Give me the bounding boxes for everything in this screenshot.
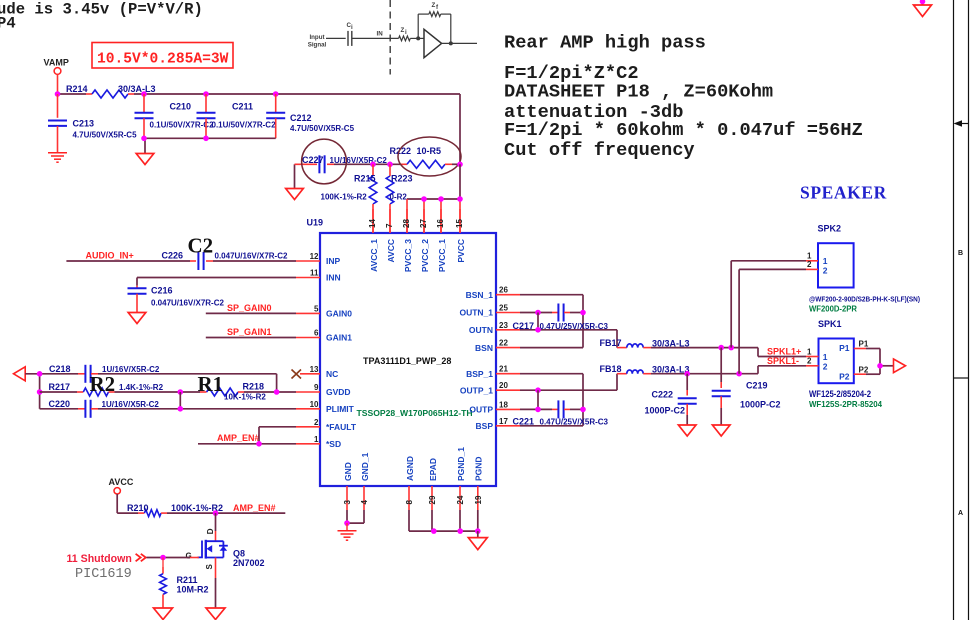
capacitor C226 0.047U/16V/X7R-C2 — [162, 251, 288, 271]
wire to SPK2 pin1 — [731, 261, 806, 348]
svg-text:TSSOP28_W170P065H12-TH: TSSOP28_W170P065H12-TH — [357, 408, 473, 418]
SPK1 pin P1 — [839, 340, 869, 354]
U19 part name — [363, 356, 451, 366]
svg-text:P1: P1 — [839, 343, 850, 353]
svg-text:NC: NC — [326, 369, 338, 379]
capacitor C222 1000P-C2 — [645, 374, 697, 425]
svg-text:P2: P2 — [859, 366, 869, 375]
svg-text:*SD: *SD — [326, 439, 341, 449]
capacitor C216 0.047U/16V/X7R-C2 — [128, 286, 225, 313]
junction dot GND — [344, 520, 350, 526]
svg-text:C2: C2 — [188, 234, 214, 258]
svg-text:PIC1619: PIC1619 — [75, 567, 132, 582]
capacitor C217 0.47U/25V/X5R-C3 — [513, 304, 609, 332]
svg-text:26: 26 — [499, 286, 508, 295]
svg-text:12: 12 — [310, 252, 319, 261]
U19 footprint name — [357, 408, 473, 418]
ground below C222 — [678, 425, 696, 436]
svg-text:21: 21 — [499, 365, 508, 374]
svg-text:Cut off frequency: Cut off frequency — [504, 139, 695, 161]
svg-text:BSP: BSP — [476, 421, 494, 431]
svg-text:2: 2 — [823, 265, 828, 275]
svg-text:0-R2: 0-R2 — [390, 193, 408, 202]
svg-text:0.1U/50V/X7R-C2: 0.1U/50V/X7R-C2 — [150, 120, 215, 129]
svg-text:*FAULT: *FAULT — [326, 422, 357, 432]
resistor R211 10M-R2 — [160, 558, 209, 608]
ground below C216 — [128, 313, 146, 324]
U19 pin 20 OUTP_1 — [460, 381, 520, 395]
wire P1 P2 join — [866, 349, 894, 375]
svg-text:WF125S-2PR-85204: WF125S-2PR-85204 — [809, 399, 882, 409]
svg-text:20: 20 — [499, 381, 508, 390]
U19 pin 29 EPAD — [428, 458, 438, 510]
U19 pin 23 OUTN — [469, 321, 520, 335]
svg-text:FB18: FB18 — [600, 364, 622, 374]
svg-text:0.1U/50V/X7R-C2: 0.1U/50V/X7R-C2 — [212, 120, 277, 129]
junction dots cap bottoms — [141, 136, 209, 142]
svg-text:C220: C220 — [49, 399, 71, 409]
svg-text:WF200D-2PR: WF200D-2PR — [809, 304, 857, 314]
wire BSP_1 loop — [520, 374, 583, 426]
svg-text:9: 9 — [314, 383, 319, 392]
resistor R210 100K-1%-R2 — [117, 503, 223, 517]
svg-text:11 Shutdown: 11 Shutdown — [67, 553, 132, 565]
inductor FB17 30/3A-L3 — [600, 338, 690, 349]
junction dots R217 row — [178, 389, 280, 395]
wire PGND bus — [409, 510, 478, 531]
SPK1 footprint — [809, 399, 882, 409]
U19 pin 17 BSP — [476, 417, 520, 431]
svg-text:R218: R218 — [243, 382, 265, 392]
svg-text:SP_GAIN1: SP_GAIN1 — [227, 327, 272, 337]
svg-text:15: 15 — [455, 219, 464, 228]
svg-text:C216: C216 — [151, 286, 173, 296]
svg-text:10M-R2: 10M-R2 — [177, 585, 209, 595]
svg-text:i: i — [351, 24, 353, 31]
transistor Q8 2N7002 — [186, 528, 265, 569]
svg-text:19: 19 — [474, 495, 483, 504]
svg-text:AVCC: AVCC — [109, 477, 134, 487]
wire PVCC distribution — [407, 164, 460, 233]
svg-text:23: 23 — [499, 321, 508, 330]
off-page connector right — [894, 359, 906, 373]
U19 pin 9 GVDD — [296, 383, 351, 397]
U19 pin 13 NC — [300, 365, 338, 379]
junction dots output nodes — [684, 345, 741, 377]
datasheet figure wire — [326, 37, 346, 39]
SPK1 part number — [809, 389, 871, 399]
svg-text:AMP_EN#: AMP_EN# — [217, 433, 260, 443]
junction dots C221 — [535, 407, 586, 413]
U19 pin 5 GAIN0 — [296, 304, 352, 318]
U19 pin 1 *SD — [296, 435, 341, 449]
svg-text:R214: R214 — [66, 84, 88, 94]
svg-text:FB17: FB17 — [600, 338, 622, 348]
svg-text:G: G — [186, 552, 192, 561]
SPK2 footprint — [809, 304, 857, 314]
U19 pin 28 PVCC_3 — [402, 209, 413, 272]
wire OUTP_1 to FB18 — [520, 374, 617, 391]
svg-text:0.047U/16V/X7R-C2: 0.047U/16V/X7R-C2 — [215, 252, 288, 261]
svg-text:SP_GAIN0: SP_GAIN0 — [227, 303, 272, 313]
resistor R218 10K-1%-R2 — [200, 382, 266, 402]
border zone B — [958, 250, 963, 257]
note: Rear AMP high pass — [504, 32, 706, 54]
svg-text:TPA3111D1_PWP_28: TPA3111D1_PWP_28 — [363, 356, 451, 366]
U19 pin 24 PGND_1 — [456, 447, 466, 510]
svg-text:1000P-C2: 1000P-C2 — [740, 400, 781, 410]
svg-text:AMP_EN#: AMP_EN# — [233, 503, 276, 513]
resistor R215 100K-1%-R2 — [321, 164, 377, 233]
wire to SPK2 pin2 — [739, 269, 806, 373]
svg-text:INP: INP — [326, 256, 341, 266]
svg-text:13: 13 — [310, 365, 319, 374]
ground top right — [914, 0, 932, 16]
inductor FB18 30/3A-L3 — [600, 364, 690, 375]
svg-text:C219: C219 — [746, 381, 768, 391]
wire C227 to R222 — [373, 163, 400, 165]
capacitor C220 1U/16V/X5R-C2 — [40, 399, 160, 418]
svg-text:C222: C222 — [652, 390, 674, 400]
wire GND pins join — [347, 510, 364, 523]
junction dots on VAMP rail — [55, 91, 279, 97]
svg-text:VAMP: VAMP — [44, 58, 69, 68]
note: attenuation — [504, 101, 683, 123]
ground below GND pins — [338, 523, 357, 540]
junction dots on C227 row — [370, 162, 463, 168]
U19 pin 12 INP — [296, 252, 341, 266]
U19 pin 10 PLIMIT — [296, 400, 355, 414]
svg-text:f: f — [436, 4, 439, 11]
resistor R214 30/3A-L3 — [66, 84, 156, 98]
svg-text:AGND: AGND — [405, 456, 415, 481]
svg-text:1: 1 — [314, 435, 319, 444]
svg-text:GAIN0: GAIN0 — [326, 309, 352, 319]
U19 pin 27 PVCC_2 — [419, 209, 430, 272]
svg-text:C226: C226 — [162, 251, 184, 261]
net AMP_EN# wire to *SD — [198, 433, 296, 444]
note box 10.5V*0.285A=3W — [92, 43, 233, 69]
label PIC1619 — [75, 567, 132, 582]
border zone A — [958, 510, 963, 517]
svg-text:AUDIO_IN+: AUDIO_IN+ — [86, 251, 134, 261]
svg-text:1.4K-1%-R2: 1.4K-1%-R2 — [119, 383, 164, 392]
datasheet figure op-amp triangle — [424, 29, 442, 57]
wire R217 to R218 — [115, 391, 201, 393]
svg-text:P2: P2 — [839, 371, 850, 381]
svg-text:OUTP: OUTP — [469, 405, 493, 415]
svg-text:PVCC_1: PVCC_1 — [437, 239, 447, 272]
svg-text:C218: C218 — [49, 364, 71, 374]
svg-text:22: 22 — [499, 339, 508, 348]
SPK1 pin 1 — [806, 347, 828, 362]
svg-text:IN: IN — [377, 31, 384, 38]
svg-text:PGND: PGND — [474, 456, 484, 481]
svg-text:Z: Z — [401, 27, 405, 34]
svg-text:28: 28 — [402, 219, 411, 228]
junction dots PVCC line — [421, 196, 463, 202]
SPK1 pin 2 — [806, 357, 828, 372]
svg-text:GND: GND — [343, 462, 353, 481]
junction dot OUTN — [535, 327, 541, 333]
svg-text:10: 10 — [310, 400, 319, 409]
svg-text:R215: R215 — [354, 174, 376, 184]
sheet border lines — [954, 0, 969, 620]
wire BSP stub — [520, 425, 583, 427]
wire left bus vertical — [39, 374, 41, 409]
svg-text:1: 1 — [807, 251, 812, 260]
wire FB17 to SPK1 pin1 — [651, 348, 806, 357]
datasheet figure output wire — [442, 41, 477, 45]
svg-text:PVCC_3: PVCC_3 — [403, 239, 413, 272]
junction dots C217 — [535, 310, 586, 316]
svg-text:4.7U/50V/X5R-C5: 4.7U/50V/X5R-C5 — [73, 131, 138, 140]
capacitor C210 0.1U/50V/X7R-C2 — [135, 94, 215, 138]
svg-text:2: 2 — [314, 418, 319, 427]
U19 pin 21 BSP_1 — [466, 365, 520, 379]
svg-text:0.047U/16V/X7R-C2: 0.047U/16V/X7R-C2 — [151, 299, 224, 308]
svg-text:EPAD: EPAD — [428, 458, 438, 481]
wire cap bottoms join — [144, 138, 276, 153]
capacitor C213 4.7U/50V/X5R-C5 — [48, 94, 137, 152]
emphasis circle around C227 — [302, 139, 347, 184]
svg-text:SPKL1+: SPKL1+ — [767, 347, 801, 357]
net label SPKL1- — [767, 356, 799, 366]
note: cutoff calc — [504, 119, 863, 141]
connector SPK1 — [818, 319, 854, 383]
svg-text:18: 18 — [499, 400, 508, 409]
svg-text:C210: C210 — [170, 102, 192, 112]
svg-text:C213: C213 — [73, 119, 95, 129]
svg-text:i: i — [405, 29, 407, 36]
svg-text:7: 7 — [385, 223, 394, 228]
svg-text:30/3A-L3: 30/3A-L3 — [118, 84, 156, 94]
svg-text:OUTN_1: OUTN_1 — [459, 308, 493, 318]
no-connect X on pin 13 — [292, 370, 302, 379]
svg-text:SPK2: SPK2 — [818, 224, 842, 234]
svg-text:R217: R217 — [49, 382, 71, 392]
svg-text:R211: R211 — [177, 575, 198, 585]
svg-text:100K-1%-R2: 100K-1%-R2 — [321, 193, 368, 202]
svg-text:Input: Input — [309, 34, 324, 41]
svg-text:OUTN: OUTN — [469, 325, 493, 335]
svg-text:F=1/2pi * 60kohm * 0.047uf =56: F=1/2pi * 60kohm * 0.047uf =56HZ — [504, 119, 863, 141]
svg-text:R210: R210 — [127, 503, 149, 513]
svg-text:SPK1: SPK1 — [818, 319, 842, 329]
datasheet figure resistor Zf — [429, 2, 441, 17]
svg-text:AVCC_1: AVCC_1 — [369, 239, 379, 272]
svg-text:2: 2 — [823, 361, 828, 371]
border arrow marker — [954, 120, 969, 127]
capacitor C227 1U/16V/X5R-C2 — [295, 155, 388, 173]
wire BSN_1 loop — [520, 295, 583, 348]
capacitor C218 1U/16V/X5R-C2 — [49, 364, 160, 383]
datasheet figure feedback wire — [418, 14, 451, 43]
resistor R222 10-R5 — [390, 146, 461, 168]
capacitor C221 0.47U/25V/X5R-C3 — [513, 400, 609, 426]
U19 pin 16 PVCC_1 — [436, 209, 447, 272]
svg-text:Rear AMP high pass: Rear AMP high pass — [504, 32, 706, 54]
junction dots left bus — [37, 371, 43, 395]
svg-text:3: 3 — [343, 500, 352, 505]
SPK1 pin P2 — [839, 366, 869, 382]
svg-text:C227: C227 — [302, 155, 324, 165]
junction dot AMP_EN# lower — [213, 510, 219, 516]
svg-text:S: S — [205, 564, 214, 570]
U19 pin 2 *FAULT — [296, 418, 357, 432]
wire OUTN to FB17 — [520, 313, 617, 348]
svg-text:16: 16 — [436, 219, 445, 228]
svg-text:29: 29 — [428, 495, 437, 504]
svg-text:14: 14 — [368, 219, 377, 228]
svg-text:2: 2 — [807, 357, 812, 366]
U19 pin 7 AVCC — [385, 209, 396, 262]
U19 pin 14 AVCC_1 — [368, 209, 379, 272]
svg-text:AVCC: AVCC — [386, 239, 396, 262]
ground below C219 — [712, 425, 730, 436]
svg-text:25: 25 — [499, 304, 508, 313]
svg-text:BSN: BSN — [475, 343, 493, 353]
wire drain — [215, 513, 217, 541]
svg-text:2N7002: 2N7002 — [233, 558, 265, 568]
off-page connector Shutdown — [67, 553, 146, 565]
U19 pin 18 OUTP — [469, 400, 520, 414]
ground below Q8 — [206, 608, 225, 620]
SPK2 pin 1 — [806, 251, 828, 266]
junction dots PGND bus — [431, 528, 481, 534]
datasheet figure wire IN — [353, 31, 399, 39]
op-amp U19 TPA3111D1 body — [307, 218, 497, 487]
resistor R223 0-R2 — [386, 164, 412, 233]
svg-text:Signal: Signal — [308, 42, 327, 49]
junction dot AMP_EN# — [256, 441, 262, 447]
big label R1 — [198, 372, 224, 396]
svg-text:GAIN1: GAIN1 — [326, 333, 352, 343]
svg-text:GND_1: GND_1 — [360, 452, 370, 481]
ground below C210 — [136, 154, 154, 165]
note: F=1/2pi*Z*C2 — [504, 62, 639, 84]
wire BSN stub — [520, 347, 583, 349]
net SP_GAIN0 wire — [206, 303, 296, 313]
note: Cut off frequency — [504, 139, 695, 161]
connector SPK2 — [818, 224, 854, 288]
svg-text:4.7U/50V/X5R-C5: 4.7U/50V/X5R-C5 — [290, 124, 355, 133]
wire *FAULT tie — [259, 427, 296, 444]
svg-text:PVCC: PVCC — [456, 239, 466, 263]
wire source to ground — [215, 558, 217, 608]
svg-text:D: D — [206, 528, 215, 534]
svg-text:ude is 3.45v (P=V*V/R): ude is 3.45v (P=V*V/R) — [0, 1, 203, 19]
junction dot C220 row — [178, 406, 184, 412]
svg-text:2: 2 — [807, 260, 812, 269]
U19 pin 6 GAIN1 — [296, 329, 352, 343]
note: SPEAKER title — [800, 183, 887, 203]
resistor R217 1.4K-1%-R2 — [40, 382, 164, 396]
off-page connector left — [14, 367, 26, 381]
svg-text:SPEAKER: SPEAKER — [800, 183, 887, 203]
ground below R211 — [154, 608, 173, 620]
wire R218 to pin 9 — [244, 391, 296, 393]
SPK2 part number — [809, 295, 920, 304]
svg-text:1: 1 — [807, 347, 812, 356]
svg-text:4: 4 — [360, 500, 369, 505]
capacitor C219 1000P-C2 — [712, 348, 781, 425]
net label SPKL1+ — [767, 347, 801, 357]
svg-text:17: 17 — [499, 417, 508, 426]
wire OUTP tie — [537, 390, 539, 409]
svg-text:R223: R223 — [391, 174, 413, 184]
U19 pin 26 BSN_1 — [466, 286, 520, 300]
ground below C213 — [48, 153, 67, 162]
U19 pin 25 OUTN_1 — [459, 304, 520, 318]
svg-text:1000P-C2: 1000P-C2 — [645, 406, 686, 416]
note: DATASHEET P18 — [504, 81, 773, 103]
junction dot gate node — [160, 555, 166, 561]
ground below PGND — [468, 531, 487, 550]
junction dot P join — [877, 363, 883, 369]
svg-text:10K-1%-R2: 10K-1%-R2 — [224, 393, 266, 402]
svg-text:C212: C212 — [290, 113, 312, 123]
U19 pin 3 GND — [343, 462, 353, 510]
big label R2 — [90, 372, 116, 396]
svg-text:P1: P1 — [859, 340, 869, 349]
wire shutdown to gate — [147, 557, 199, 559]
wire FB18 to SPK1 pin2 — [651, 366, 806, 374]
net AMP_EN# wire lower — [167, 503, 285, 513]
U19 pin 11 INN — [296, 269, 341, 283]
wire C218 to NC column — [98, 374, 277, 392]
svg-text:A: A — [958, 510, 963, 517]
power symbol VAMP — [44, 58, 69, 95]
svg-text:BSP_1: BSP_1 — [466, 369, 493, 379]
capacitor C212 4.7U/50V/X5R-C5 — [266, 94, 354, 138]
datasheet figure wire to node — [410, 36, 424, 40]
U19 pin 4 GND_1 — [360, 452, 370, 510]
ground left of C227 — [286, 164, 304, 199]
U19 pin 22 BSN — [475, 339, 520, 353]
SPK2 pin 2 — [806, 260, 828, 275]
big label C2 — [188, 234, 214, 258]
wire C226 to pin 12 — [213, 260, 296, 262]
svg-text:PGND_1: PGND_1 — [456, 447, 466, 481]
svg-text:1U/16V/X5R-C2: 1U/16V/X5R-C2 — [102, 400, 160, 409]
svg-text:INN: INN — [326, 273, 341, 283]
svg-text:8: 8 — [405, 500, 414, 505]
svg-text:11: 11 — [310, 269, 319, 278]
svg-text:6: 6 — [314, 329, 319, 338]
wire C220 to pin 10 — [98, 408, 296, 410]
svg-text:PLIMIT: PLIMIT — [326, 404, 355, 414]
svg-text:R1: R1 — [198, 372, 224, 396]
svg-text:R2: R2 — [90, 372, 116, 396]
net AUDIO_IN+ wire — [66, 251, 190, 262]
svg-text:10.5V*0.285A=3W: 10.5V*0.285A=3W — [97, 52, 229, 68]
svg-text:5: 5 — [314, 304, 319, 313]
svg-text:DATASHEET P18 , Z=60Kohm: DATASHEET P18 , Z=60Kohm — [504, 81, 773, 103]
U19 pin 19 PGND — [474, 456, 484, 510]
svg-text:GVDD: GVDD — [326, 387, 351, 397]
svg-text:U19: U19 — [307, 218, 324, 228]
U19 pin 8 AGND — [405, 456, 415, 510]
svg-text:10-R5: 10-R5 — [417, 146, 442, 156]
svg-text:P4: P4 — [0, 15, 16, 33]
svg-text:@WF200-2-90D/S2B-PH-K-S(LF)(SN: @WF200-2-90D/S2B-PH-K-S(LF)(SN) — [809, 295, 920, 304]
junction dot OUTP_1 — [535, 387, 541, 393]
capacitor C211 0.1U/50V/X7R-C2 — [197, 94, 277, 138]
wire VAMP rail left — [58, 93, 87, 95]
wire INN branch — [137, 278, 296, 286]
svg-text:C211: C211 — [232, 102, 253, 112]
